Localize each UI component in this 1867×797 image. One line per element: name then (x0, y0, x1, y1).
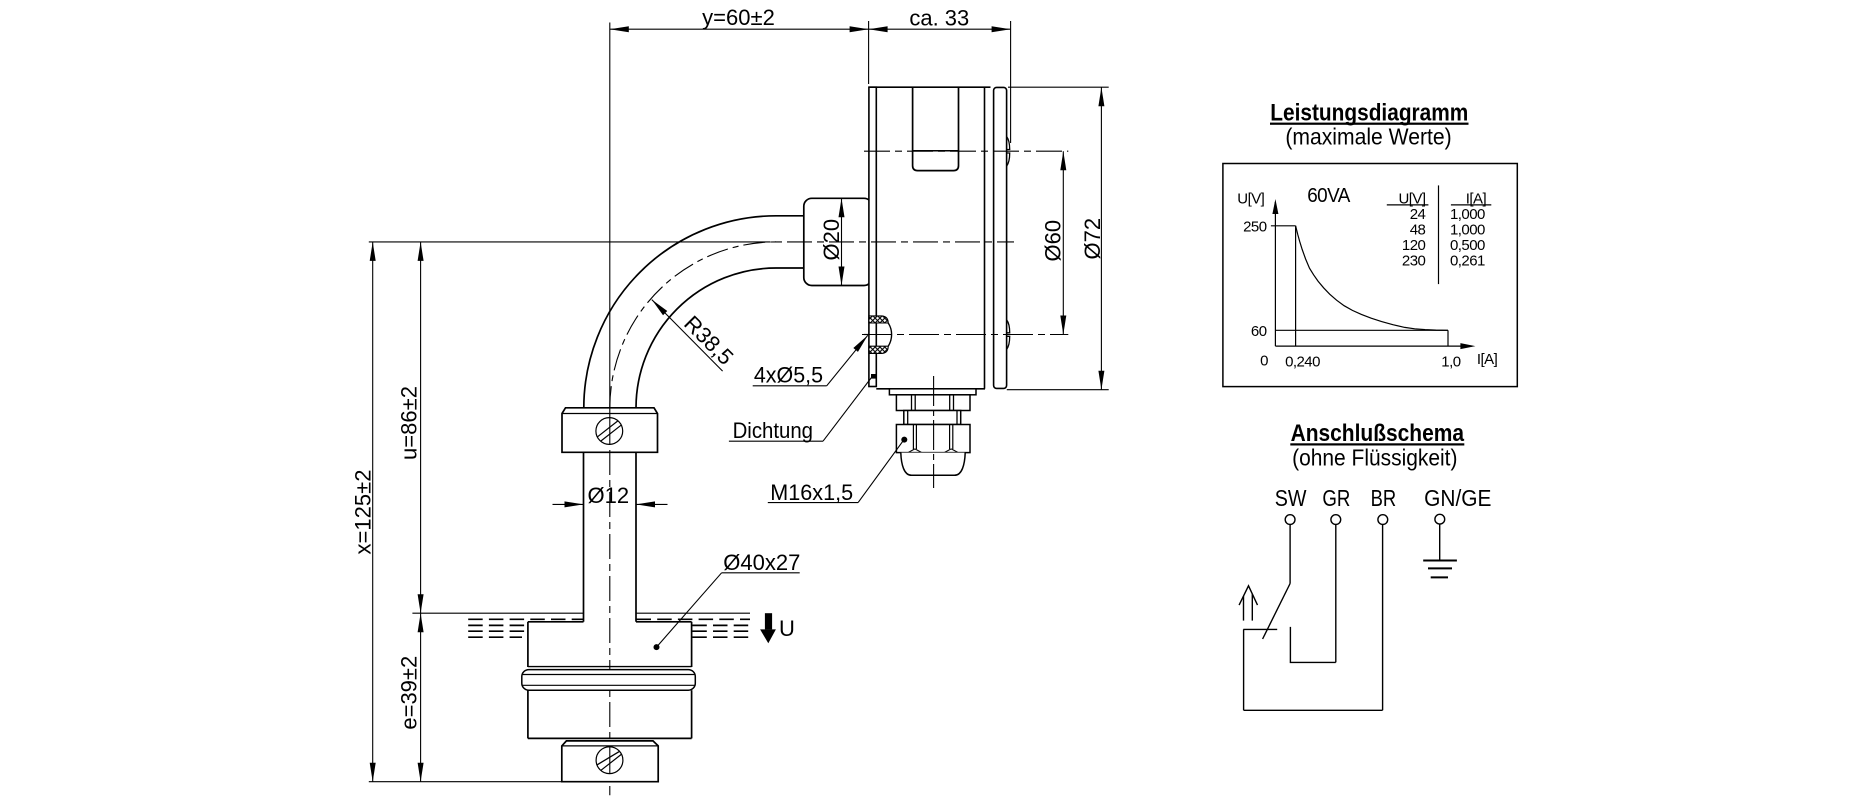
svg-text:4xØ5,5: 4xØ5,5 (754, 363, 823, 388)
wire float arrow shaft right (1251, 594, 1253, 620)
svg-text:0: 0 (1260, 353, 1268, 370)
wire bottom lead (1244, 709, 1383, 711)
wire left down lead (1243, 629, 1245, 710)
node gland dome (901, 453, 965, 476)
node y axis arrow (1272, 199, 1278, 214)
wire dim extension D72 bottom (1007, 389, 1109, 391)
svg-text:48: 48 (1410, 222, 1426, 239)
dimension arrowheads (370, 26, 1105, 782)
wire clamp screw slot line 1 (601, 425, 621, 441)
wire water hatch row 3 (468, 630, 528, 632)
wire housing bottom edge (876, 388, 985, 390)
wire lower screw slot line 2 (597, 751, 619, 765)
svg-text:u=86±2: u=86±2 (397, 386, 422, 460)
node nut flat flare left (909, 449, 922, 452)
wire contact cup (1290, 627, 1335, 663)
node float top plate (528, 621, 584, 623)
wire BR lead (1382, 525, 1384, 711)
svg-text:1,000: 1,000 (1450, 222, 1485, 239)
svg-text:60: 60 (1251, 323, 1267, 340)
node terminal GN/GE (1435, 514, 1445, 524)
svg-text:U[V]: U[V] (1237, 190, 1264, 207)
svg-text:I[A]: I[A] (1466, 190, 1487, 207)
svg-text:e=39±2: e=39±2 (397, 656, 422, 730)
svg-text:60VA: 60VA (1307, 185, 1351, 207)
dimension texts (351, 5, 1106, 730)
wire gland axis centerline (933, 376, 935, 488)
wire underline Dichtung (729, 440, 823, 442)
wire nut hex flat line left pair (912, 425, 914, 450)
node flange screw head arc (888, 323, 891, 346)
wire table divider (1438, 185, 1440, 284)
wire leader D40x27 (657, 573, 722, 647)
wire x axis (1275, 345, 1472, 347)
wire gland hex flat line 3 (949, 395, 951, 411)
node housing left flange (869, 87, 876, 386)
node power curve (1296, 226, 1448, 330)
wire 250 level line (1271, 225, 1296, 227)
wire cable slot inner line (913, 150, 959, 152)
wire gland neck inner line right (956, 411, 958, 425)
wire stem left line (583, 452, 585, 622)
svg-text:Ø72: Ø72 (1080, 218, 1105, 260)
wire gland hex flat line 2 (914, 395, 916, 411)
wire lower screw slot line 1 (601, 754, 621, 770)
wire housing seam line 1 (984, 87, 986, 389)
wire dim extension D72 top (1008, 86, 1109, 88)
wire table header underline U (1387, 204, 1429, 206)
wire 1.0 vertical line (1447, 330, 1449, 346)
wire elbow centerline arc R38.5 (610, 242, 776, 408)
node float up arrow head (1239, 586, 1257, 605)
node gland neck (904, 411, 961, 425)
svg-text:Ø12: Ø12 (588, 483, 630, 508)
wire dim line D12 (553, 503, 584, 505)
svg-text:y=60±2: y=60±2 (702, 5, 775, 30)
wire dim line x=125 (372, 242, 374, 782)
wire dim line D72 (1100, 87, 1102, 390)
svg-text:I[A]: I[A] (1477, 351, 1498, 368)
node Ø20 connector block (804, 198, 872, 285)
svg-text:SW: SW (1275, 485, 1307, 511)
wire GN/GE lead (1439, 524, 1441, 560)
wire fixed contact (1243, 628, 1277, 630)
wire elbow outer arc (584, 216, 776, 408)
node stem clamp upper (562, 408, 658, 453)
wire GR lead (1335, 525, 1337, 663)
svg-text:Anschlußschema: Anschlußschema (1291, 420, 1465, 447)
wire underline M16x1,5 (768, 502, 858, 504)
wire upper hole centerline (864, 150, 1068, 152)
wire dim line u/e (420, 242, 422, 782)
wire water hatch row 4 (468, 636, 522, 638)
node cable gland flange (889, 389, 976, 395)
svg-text:Ø40x27: Ø40x27 (723, 550, 800, 575)
wire tube bottom line (776, 267, 805, 269)
svg-text:x=125±2: x=125±2 (351, 470, 376, 555)
wire flange screw left tick (864, 334, 869, 336)
wire vertical centerline (609, 23, 611, 409)
wire centerline through lower screw (609, 747, 611, 774)
wire table header underline I (1451, 204, 1491, 206)
wire lower hole centerline (862, 334, 1068, 336)
svg-text:0,261: 0,261 (1450, 252, 1485, 269)
node flange screw hatched band lower (869, 346, 888, 353)
wire gland neck inner line left (907, 411, 909, 425)
DIMENSIONS (369, 21, 1109, 782)
svg-text:230: 230 (1402, 252, 1426, 269)
wire stem right line (635, 452, 637, 622)
node cable gland hex body (896, 395, 970, 411)
svg-text:U[V]: U[V] (1399, 190, 1426, 207)
node terminal BR (1378, 515, 1388, 525)
node float lower barrel (527, 690, 529, 738)
svg-text:BR: BR (1371, 485, 1397, 511)
svg-text:0,240: 0,240 (1285, 353, 1320, 370)
svg-text:250: 250 (1243, 219, 1267, 236)
node U direction arrow (760, 613, 776, 643)
svg-text:Ø60: Ø60 (1040, 220, 1065, 262)
node M16 dot (901, 437, 907, 443)
node flange screw hatched band upper (869, 316, 888, 323)
wire dim extension line ca33 right (1010, 21, 1012, 143)
node housing cover rim (994, 87, 1007, 388)
node chart frame (1223, 164, 1517, 387)
node nut flat flare right (945, 449, 958, 452)
wire nut hex flat line right pair (949, 425, 951, 450)
wire horizontal centerline (369, 241, 745, 243)
wire underline 4xD5,5 (753, 385, 827, 387)
wire title underline (1270, 123, 1469, 125)
wire elbow inner arc (636, 268, 776, 408)
wire dim line D60 (1062, 151, 1064, 334)
wire underline D40x27 (722, 572, 800, 574)
wire SW lead (1289, 525, 1291, 584)
svg-text:GR: GR (1322, 485, 1350, 511)
svg-text:(ohne Flüssigkeit): (ohne Flüssigkeit) (1292, 445, 1457, 471)
wire bottom extension line (369, 781, 658, 783)
node Dichtung dot (871, 374, 876, 379)
node cover screw lobe upper (1007, 137, 1010, 167)
node switch blade (1263, 584, 1291, 640)
node terminal SW (1285, 515, 1295, 525)
wire housing top edge (869, 86, 991, 88)
wire dim extension line top y (868, 21, 870, 84)
wire water level line (412, 612, 583, 614)
svg-text:ca. 33: ca. 33 (909, 6, 969, 31)
wire 60 level line (1275, 329, 1448, 331)
wire leader R38,5 (652, 300, 723, 372)
node D40x27 dot (654, 644, 660, 650)
wire water hatch row 1 (468, 618, 583, 620)
svg-text:Ø20: Ø20 (819, 219, 844, 261)
node leader arrow 4xD5,5 (853, 333, 870, 351)
wire leader 4xD5,5 (827, 335, 868, 386)
wire tube top line (776, 215, 805, 217)
node clamp screw upper (596, 418, 623, 445)
wire y axis (1274, 202, 1276, 346)
node cable slot (913, 87, 959, 170)
svg-text:M16x1,5: M16x1,5 (770, 480, 853, 505)
node clamp screw lower (596, 747, 623, 774)
ground (1423, 560, 1457, 562)
svg-text:Dichtung: Dichtung (733, 418, 813, 443)
node terminal GR (1331, 515, 1341, 525)
svg-text:1,0: 1,0 (1441, 353, 1460, 370)
wire float arrow shaft left (1243, 596, 1245, 621)
svg-text:(maximale Werte): (maximale Werte) (1285, 124, 1451, 150)
node float collar band (522, 670, 696, 691)
node stem clamp lower (562, 741, 658, 782)
wire leader M16x1,5 (858, 440, 903, 502)
wire top dimension line (610, 28, 1011, 30)
node x axis arrow (1460, 343, 1475, 349)
wire title underline (1290, 443, 1464, 445)
wire collar inner line bottom (523, 684, 695, 686)
wire 0.240 vertical line (1295, 226, 1297, 346)
leader labels (679, 311, 853, 575)
svg-text:U: U (779, 616, 795, 641)
wire gland hex flat line 1 (911, 395, 913, 411)
wire gland hex flat line 4 (953, 395, 955, 411)
svg-text:GN/GE: GN/GE (1424, 485, 1491, 511)
wire collar inner line top (523, 674, 695, 676)
svg-text:Leistungsdiagramm: Leistungsdiagramm (1270, 100, 1468, 127)
wire water hatch row 2 (468, 624, 528, 626)
wire clamp screw slot line 2 (598, 421, 618, 437)
wire centerline through upper screw (609, 418, 611, 445)
node leader arrow R38,5 (650, 297, 668, 315)
node cover screw lobe lower (1007, 320, 1010, 350)
node gland cap nut (896, 425, 970, 453)
wire leader Dichtung (823, 377, 872, 441)
wire dim line D20 (841, 198, 843, 285)
